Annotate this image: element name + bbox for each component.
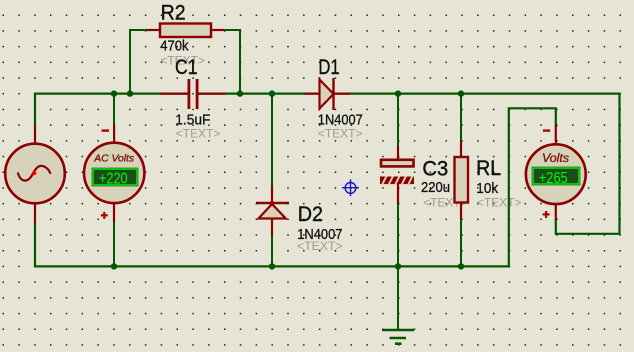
wire: AC voltmeter bottom branch: [113, 221, 115, 266]
svg-text:470k: 470k: [160, 39, 189, 55]
wire: AC voltmeter top branch: [113, 94, 115, 126]
wire: C3 top branch: [397, 94, 399, 147]
wire: R2 branch right: [223, 30, 240, 94]
svg-text:+265: +265: [539, 170, 568, 187]
origin marker: [342, 179, 359, 196]
svg-text:AC Volts: AC Volts: [93, 154, 134, 165]
wire: D2 bottom branch: [271, 234, 273, 266]
wire: RL bottom branch: [460, 218, 462, 266]
wire: D2 top branch: [271, 94, 273, 186]
svg-text:C1: C1: [175, 56, 198, 79]
svg-text:<TEXT>: <TEXT>: [318, 126, 363, 140]
wire: right riser from bottom rail to meter minus: [509, 108, 556, 267]
junction at bottom rail / RL: [458, 263, 464, 269]
wire: source bottom riser and bottom rail: [35, 222, 509, 266]
wire: C3 bottom branch: [397, 203, 399, 266]
svg-text:220u: 220u: [421, 180, 450, 196]
svg-text:<TEXT>: <TEXT>: [477, 195, 522, 209]
junction at top rail / D2: [269, 90, 275, 96]
resistor RL: [455, 141, 522, 219]
wire: top rail from C1 through D1 to right corner, down and to meter plus: [197, 94, 620, 234]
wire: RL top branch: [460, 94, 462, 142]
junction at top rail / AC voltmeter: [111, 90, 117, 96]
capacitor C1: [161, 56, 226, 141]
voltmeter AC Volts: [84, 125, 144, 223]
capacitor C3: [380, 146, 468, 209]
svg-text:<TEXT>: <TEXT>: [176, 126, 221, 140]
svg-text:<TEXT>: <TEXT>: [297, 239, 343, 253]
svg-text:D1: D1: [318, 56, 339, 79]
wire: R2 branch left: [130, 30, 148, 94]
junction at top rail / R2 right: [237, 90, 243, 96]
generator V1 (AC source): [5, 125, 65, 223]
junction at bottom rail / D2: [269, 263, 275, 269]
junction at top rail / RL: [458, 90, 464, 96]
wire: source top riser and top rail to C1: [35, 94, 189, 126]
junction at bottom rail / C3 and ground: [395, 263, 401, 269]
svg-text:C3: C3: [422, 157, 448, 180]
junction at bottom rail / AC voltmeter: [111, 263, 117, 269]
svg-text:RL: RL: [476, 157, 501, 180]
diode D2: [256, 185, 343, 253]
wire: ground stem: [397, 266, 399, 329]
resistor R2: [147, 1, 224, 67]
svg-text:D2: D2: [298, 203, 323, 226]
svg-text:+220: +220: [99, 170, 128, 187]
junction at top rail / R2 left: [127, 90, 133, 96]
diode D1: [304, 56, 363, 140]
ground: [382, 330, 414, 344]
svg-text:Volts: Volts: [542, 152, 569, 165]
junction at top rail / C3: [395, 90, 401, 96]
svg-text:R2: R2: [161, 1, 186, 24]
voltmeter Volts (right): [526, 125, 586, 220]
